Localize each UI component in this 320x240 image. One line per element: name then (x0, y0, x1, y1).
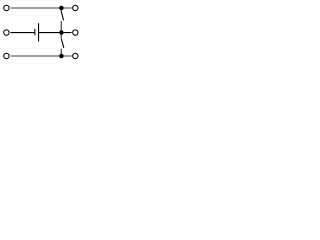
wire bottom rail (11, 55, 72, 57)
wire vertical bus (S1 contact through node B to S2) (60, 21, 62, 38)
battery B1 short plate (negative) (34, 29, 36, 35)
switch S1 lever (open, from node A down-right) (61, 10, 64, 20)
battery B1 long plate (positive) (38, 23, 40, 41)
node B (junction dot middle) (59, 30, 64, 35)
wire stub (S2 contact to node C) (60, 49, 62, 56)
switch S2 lever (open, from bus bottom down-right) (61, 39, 64, 48)
terminal T6 (bottom-right open circle) (73, 53, 78, 58)
terminal T4 (middle-right open circle) (73, 30, 78, 35)
node C (junction dot bottom) (59, 54, 64, 59)
wire middle rail left (T3 to battery) (11, 32, 35, 34)
terminal T2 (top-right open circle) (73, 5, 78, 10)
terminal T1 (top-left open circle) (4, 5, 9, 10)
terminal T3 (middle-left open circle) (4, 30, 9, 35)
wire top rail (11, 7, 72, 9)
node A (junction dot top) (59, 6, 64, 11)
wire middle rail right (battery to node B and T4) (39, 32, 72, 34)
terminal T5 (bottom-left open circle) (4, 53, 9, 58)
